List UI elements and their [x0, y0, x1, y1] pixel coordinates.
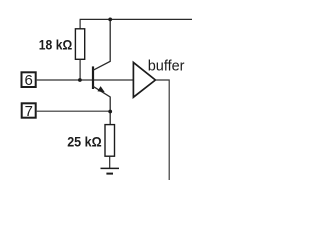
- svg-text:25 kΩ: 25 kΩ: [67, 134, 102, 149]
- resistor R2: [105, 125, 115, 157]
- wire: R1 bottom to base node: [79, 59, 81, 80]
- svg-text:18 kΩ: 18 kΩ: [39, 37, 73, 52]
- node: emitter junction dot: [108, 110, 112, 114]
- wire: R2 bottom to ground: [109, 156, 111, 168]
- wire: top supply rail: [80, 18, 192, 20]
- op-amp buffer U1: [133, 62, 155, 97]
- pin 7 terminal box: [22, 103, 36, 117]
- node: collector junction dot: [108, 18, 112, 22]
- ground: [101, 168, 120, 173]
- svg-text:6: 6: [25, 72, 33, 89]
- svg-text:buffer: buffer: [148, 59, 185, 75]
- wire: pin 6 to transistor base and buffer input: [37, 79, 134, 81]
- pin 6 terminal box: [22, 72, 36, 87]
- svg-text:7: 7: [25, 103, 33, 120]
- resistor R1: [75, 29, 84, 60]
- wire: buffer output to bottom edge: [155, 80, 169, 180]
- transistor Q1 base bar: [92, 66, 94, 89]
- transistor Q1 emitter lead: [93, 86, 110, 124]
- wire: pin 7 to emitter node: [37, 110, 111, 112]
- node: base junction dot: [78, 78, 82, 82]
- transistor Q1 emitter arrowhead: [97, 86, 104, 92]
- wire: rail corner down to R1 top: [79, 19, 81, 29]
- transistor Q1 collector lead: [93, 19, 110, 70]
